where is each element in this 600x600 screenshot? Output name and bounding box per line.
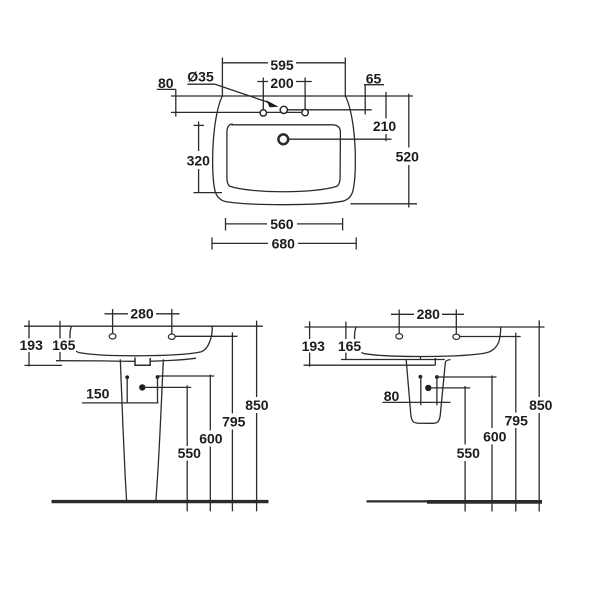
- leader 600 left: [158, 375, 215, 377]
- dimension 210: [385, 92, 387, 119]
- dimension 165 left: [59, 321, 61, 361]
- dimension 193 left: [28, 321, 30, 367]
- basin lower lip front-left (right of notch): [150, 358, 196, 361]
- label 193 right: [301, 339, 326, 353]
- label 560: [267, 217, 297, 231]
- dimension 520: [408, 94, 410, 148]
- drain hole (plan): [278, 134, 288, 144]
- dimension 150 line: [82, 402, 159, 404]
- svg-text:560: 560: [270, 216, 294, 232]
- svg-text:595: 595: [270, 57, 294, 73]
- svg-text:600: 600: [483, 428, 507, 444]
- svg-text:280: 280: [417, 306, 441, 322]
- rim top line left view: [24, 325, 263, 327]
- semi-pedestal outline: [406, 360, 450, 424]
- dimension 280 right: [391, 313, 464, 315]
- svg-text:80: 80: [158, 75, 174, 91]
- fixing hole big (pedestal): [139, 384, 145, 390]
- faucet hole centre line: [171, 111, 308, 113]
- svg-text:165: 165: [338, 338, 362, 354]
- 193 reference line right view: [304, 364, 436, 366]
- fixing hole small right (pedestal): [156, 375, 160, 379]
- faucet hole right (plan): [302, 109, 308, 115]
- fixing hole small right (semi-pedestal): [435, 375, 439, 379]
- svg-text:193: 193: [20, 337, 44, 353]
- svg-text:795: 795: [505, 412, 529, 428]
- dimension 550 right: [464, 386, 466, 445]
- dimension 550 left: [186, 385, 188, 446]
- dimension 200: [257, 81, 312, 83]
- svg-text:680: 680: [272, 236, 296, 252]
- faucet hole right (front-left): [168, 334, 175, 339]
- dimension 280 left: [105, 313, 180, 315]
- fixing hole big (semi-pedestal): [425, 385, 431, 391]
- leader 550 left: [142, 386, 191, 388]
- overflow notch left view: [135, 358, 150, 366]
- dimension 165 right: [345, 322, 347, 360]
- svg-text:850: 850: [529, 397, 553, 413]
- ground line left: [52, 500, 269, 503]
- middle hole line: [288, 109, 372, 111]
- faucet hole left (plan): [260, 110, 266, 116]
- dimension 680: [212, 242, 356, 244]
- washbasin outline front-right: [355, 327, 501, 356]
- label 193 left: [19, 339, 44, 353]
- dimension 795 left: [231, 333, 233, 414]
- svg-text:550: 550: [457, 445, 481, 461]
- svg-text:Ø35: Ø35: [187, 69, 214, 85]
- basin bottom line right view: [341, 359, 445, 361]
- svg-text:520: 520: [396, 149, 420, 165]
- pedestal right edge: [156, 359, 164, 501]
- label 165 left: [52, 339, 77, 353]
- dimension 65: [364, 84, 384, 86]
- 193 level tick left view: [25, 364, 63, 366]
- svg-text:200: 200: [270, 75, 294, 91]
- dimension 600 left: [209, 375, 211, 431]
- faucet hole middle (plan): [280, 106, 287, 113]
- svg-text:65: 65: [366, 71, 382, 87]
- svg-text:193: 193: [302, 338, 326, 354]
- svg-text:210: 210: [373, 118, 397, 134]
- label 280 right: [414, 307, 442, 321]
- basin lower lip / 165 level line front-left: [56, 360, 136, 363]
- svg-text:150: 150: [86, 386, 110, 402]
- label 200: [268, 76, 296, 90]
- dimension 560: [226, 223, 343, 225]
- dimension 150 extension lines: [126, 377, 128, 403]
- svg-text:80: 80: [384, 388, 400, 404]
- faucet leader to 795 left: [175, 335, 237, 337]
- faucet hole left (front-right): [396, 334, 403, 339]
- dimension 193 right: [309, 321, 311, 366]
- svg-text:165: 165: [52, 337, 76, 353]
- svg-text:550: 550: [178, 445, 202, 461]
- dimension 850 left: [256, 321, 258, 397]
- dimension 595: [222, 62, 345, 64]
- leader line O35: [215, 84, 268, 102]
- washbasin outline front-left: [70, 326, 212, 355]
- faucet hole right (front-right): [453, 334, 460, 339]
- svg-text:850: 850: [245, 397, 269, 413]
- faucet hole left (front-left): [109, 334, 116, 339]
- dimension 80 extension lines: [420, 375, 422, 405]
- svg-text:320: 320: [187, 153, 211, 169]
- label 280 left: [128, 307, 156, 321]
- fixing hole small left (semi-pedestal): [419, 375, 423, 379]
- label 165 right: [337, 339, 362, 353]
- label 595: [268, 57, 296, 72]
- inner bowl outline (plan): [227, 124, 341, 192]
- overflow notch top left edge right view: [420, 356, 422, 359]
- fixing hole small left (pedestal): [125, 375, 129, 379]
- svg-text:280: 280: [130, 306, 154, 322]
- label 680: [268, 237, 298, 251]
- pedestal left edge: [120, 359, 126, 501]
- basin back edge line: [171, 95, 413, 97]
- dimension 80 line right view: [383, 401, 451, 403]
- leader 550 right: [428, 387, 470, 389]
- O35 underline: [188, 83, 216, 85]
- washbasin outer outline (plan): [213, 96, 356, 205]
- svg-text:600: 600: [199, 431, 223, 447]
- dimension 80 (plan): [157, 88, 176, 90]
- overflow notch right edge right view: [434, 358, 436, 365]
- ground line right thin part: [367, 500, 430, 502]
- dimension 600 right: [491, 376, 493, 429]
- ground line right thick part: [427, 500, 542, 504]
- faucet leader to 795 right: [460, 336, 521, 338]
- svg-text:795: 795: [222, 414, 246, 430]
- dimension 795 right: [515, 333, 517, 413]
- dimension 850 right: [538, 320, 540, 397]
- dimension 320: [198, 122, 200, 152]
- rim top line right view: [305, 326, 545, 328]
- arrowhead O35: [266, 100, 278, 107]
- leader 600 right: [437, 376, 497, 378]
